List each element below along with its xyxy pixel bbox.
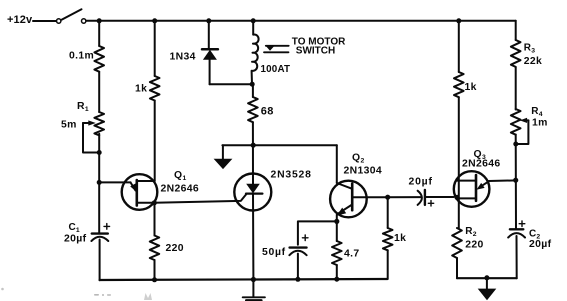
node junction 50uf rail bbox=[295, 277, 300, 282]
node junction top x253 bbox=[251, 18, 256, 23]
node junction SCR cathode rail bbox=[251, 277, 256, 282]
wire bottom rail bbox=[100, 279, 388, 280]
node junction Q2 base 1k bbox=[385, 195, 390, 200]
wire R2 to bottom segment bbox=[456, 258, 458, 278]
wire from +12v to switch bbox=[33, 20, 56, 22]
resistor 4.7 bbox=[332, 241, 342, 265]
svg-text:220: 220 bbox=[465, 240, 483, 251]
wire Q2 collector riser bbox=[336, 145, 338, 183]
R4 wiper arrow bbox=[526, 119, 528, 121]
node junction top x208 bbox=[206, 18, 211, 23]
wire 1k mid to rail bbox=[387, 250, 389, 279]
node junction ground right bbox=[484, 275, 489, 280]
wire 68 to SCR anode bbox=[252, 122, 254, 184]
diode 1N34 bbox=[202, 21, 252, 84]
resistor 1k left bbox=[150, 76, 160, 100]
ground chassis bbox=[243, 280, 265, 301]
wire R1 bottom down bbox=[98, 134, 100, 233]
wire left branch upper bbox=[98, 21, 100, 46]
node junction Q1 B1 bbox=[152, 200, 157, 205]
relay armature arrow bbox=[264, 45, 289, 52]
wire base to 1k mid bbox=[387, 197, 389, 228]
capacitor 50uf bbox=[289, 235, 308, 255]
wire 4.7 to rail bbox=[336, 265, 338, 279]
wire emitter to 50uf bbox=[298, 221, 337, 244]
svg-text:50µf: 50µf bbox=[262, 247, 286, 258]
faint scan smudges bbox=[1, 288, 152, 300]
wire R4 down to C2 bbox=[515, 135, 517, 230]
svg-text:1N34: 1N34 bbox=[170, 52, 196, 63]
svg-text:4.7: 4.7 bbox=[344, 249, 360, 260]
svg-text:20µf: 20µf bbox=[529, 239, 552, 250]
svg-text:68: 68 bbox=[261, 106, 274, 118]
svg-text:0.1m: 0.1m bbox=[69, 51, 94, 62]
svg-text:22k: 22k bbox=[524, 56, 542, 67]
resistor 1k mid bbox=[383, 228, 393, 250]
resistor R2 220 bbox=[452, 228, 462, 258]
node junction wiper bbox=[97, 150, 102, 155]
ground arrow bbox=[478, 278, 497, 300]
switch S1 bbox=[57, 9, 86, 23]
arrow to negative bbox=[214, 145, 233, 169]
SCR 2N3528 bbox=[234, 174, 271, 280]
R1 wiper arrow bbox=[83, 122, 91, 124]
resistor R3 22k bbox=[511, 40, 521, 67]
transistor Q1 2N2646 bbox=[99, 174, 157, 210]
wire 1k branch bbox=[154, 21, 156, 76]
capacitor C1 bbox=[91, 224, 109, 241]
wire 50uf to rail bbox=[297, 254, 299, 280]
svg-text:1k: 1k bbox=[394, 233, 406, 244]
wire 1k to Q1 B2 bbox=[154, 101, 156, 182]
svg-text:2N1304: 2N1304 bbox=[344, 166, 383, 177]
wire C2 to bottom segment bbox=[516, 236, 518, 278]
node junction R4 wiper bbox=[513, 142, 518, 147]
wire R4 wiper loop bbox=[516, 120, 529, 144]
svg-text:1k: 1k bbox=[465, 82, 477, 93]
resistor 0.1m bbox=[94, 46, 104, 72]
wire crossbar to Q2 collector bbox=[222, 144, 336, 146]
resistor 1k right bbox=[454, 72, 464, 97]
wire top rail bbox=[86, 20, 516, 22]
svg-text:1k: 1k bbox=[135, 84, 147, 95]
wire C1 to bottom rail bbox=[99, 240, 101, 281]
svg-text:2N2646: 2N2646 bbox=[462, 158, 501, 169]
node junction emitter Q1 bbox=[97, 180, 102, 185]
svg-text:20µf: 20µf bbox=[64, 234, 87, 245]
wire bottom right segment bbox=[457, 277, 517, 279]
node junction Q2 emitter bbox=[334, 219, 339, 224]
svg-text:100AT: 100AT bbox=[261, 64, 291, 75]
svg-text:5m: 5m bbox=[61, 120, 77, 131]
node junction Q3 emitter net bbox=[513, 178, 518, 183]
svg-text:+12v: +12v bbox=[7, 14, 33, 26]
wire 220 to rail bbox=[154, 260, 156, 280]
wire Q3 emitter horizontal bbox=[489, 179, 516, 182]
resistor 220 bbox=[150, 236, 159, 261]
svg-text:SWITCH: SWITCH bbox=[296, 46, 335, 57]
svg-text:20µf: 20µf bbox=[409, 177, 433, 188]
wire R3 branch top bbox=[515, 21, 517, 40]
potentiometer R4 1m bbox=[511, 109, 521, 135]
node junction 220 rail bbox=[152, 277, 157, 282]
wire 1k right branch bbox=[458, 21, 460, 72]
node junction 4.7 rail bbox=[334, 277, 339, 282]
node junction anode bbox=[251, 143, 256, 148]
wire between 0.1m and R1 bbox=[98, 72, 100, 112]
capacitor 20uf coupling bbox=[418, 190, 454, 206]
potentiometer R1 bbox=[94, 112, 104, 135]
wire gate to SCR bbox=[154, 194, 246, 203]
capacitor C2 bbox=[508, 221, 525, 238]
svg-text:1m: 1m bbox=[532, 117, 548, 128]
node junction Q3 B1 bbox=[454, 195, 459, 200]
wire 1k right to Q3 bbox=[458, 97, 460, 228]
resistor 68 bbox=[248, 97, 258, 122]
wire R1 wiper loop bbox=[83, 123, 99, 153]
transistor Q3 2N2646 bbox=[454, 171, 490, 207]
inductor L1 relay coil bbox=[252, 21, 259, 97]
wire Q1 B1 down bbox=[154, 203, 156, 236]
node junction top x99 bbox=[97, 18, 102, 23]
svg-text:2N3528: 2N3528 bbox=[271, 170, 312, 181]
node junction coil diode bbox=[250, 82, 255, 87]
svg-text:2N2646: 2N2646 bbox=[161, 184, 200, 195]
node junction top x459 bbox=[456, 18, 461, 23]
wire Q2 emitter down bbox=[336, 221, 338, 241]
wire R3 to R4 bbox=[515, 67, 517, 109]
transistor Q2 2N1304 bbox=[330, 181, 421, 222]
node junction top x155 bbox=[152, 18, 157, 23]
svg-text:220: 220 bbox=[166, 243, 184, 254]
